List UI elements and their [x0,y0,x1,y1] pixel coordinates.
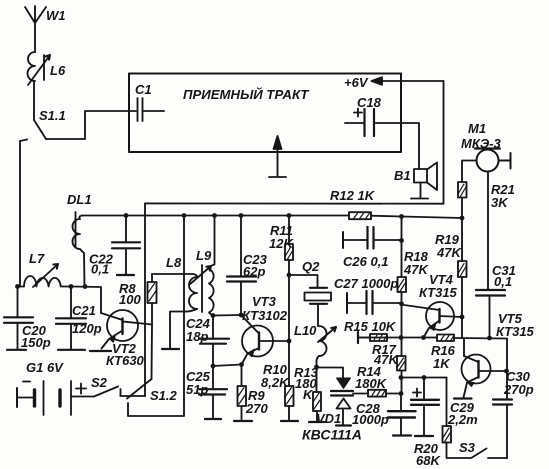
svg-text:62p: 62p [243,264,265,279]
capacitor C22 [112,216,140,275]
svg-text:L7: L7 [29,251,45,266]
svg-text:S3: S3 [459,440,476,455]
inductor DL1 [73,212,85,287]
node: input arrow into box bottom [269,136,286,177]
ground under VT2 emitter [90,350,111,352]
switch S2 [94,387,145,397]
svg-text:C21: C21 [72,303,96,318]
svg-text:3K: 3K [491,195,509,210]
svg-text:МКЭ-3: МКЭ-3 [461,136,501,151]
svg-text:C1: C1 [135,82,152,97]
ground under L8 [162,348,179,350]
transistor VT4 [401,302,463,338]
svg-text:КТ315: КТ315 [419,285,458,300]
svg-text:DL1: DL1 [67,192,92,207]
transistor VT5 [462,338,507,398]
resistor R11 [285,216,293,341]
battery G1 [17,381,94,415]
ground under R13 [309,421,324,423]
svg-text:68K: 68K [416,453,441,468]
svg-text:S1.2: S1.2 [150,388,178,403]
resistor R18 [398,277,407,292]
wire bus to M1 column [402,217,462,219]
svg-text:L9: L9 [196,248,212,263]
svg-text:C18: C18 [357,95,382,110]
wire R15/R16 emitter line [358,338,507,399]
svg-text:S2: S2 [91,375,108,390]
ground under C20 [7,349,26,351]
resistor R17 [397,356,406,371]
svg-text:B1: B1 [394,168,411,183]
ground under C22 [117,274,134,276]
svg-text:51p: 51p [186,382,208,397]
resistor R19 [458,218,467,317]
capacitor C27 with terminal bar [347,291,402,314]
svg-text:L10: L10 [294,323,317,338]
resistor R10 [285,341,294,421]
svg-text:0,1: 0,1 [494,274,512,289]
svg-text:47K: 47K [403,262,429,277]
svg-text:0,1: 0,1 [91,262,109,277]
svg-text:1000p: 1000p [352,412,389,427]
resistor R21 [458,182,467,218]
svg-text:+6V: +6V [344,75,369,90]
svg-text:M1: M1 [468,121,486,136]
svg-text:L6: L6 [50,63,66,78]
transistor VT2 [101,310,152,349]
resistor R20 [443,378,452,459]
resistor R8 [148,274,157,325]
svg-text:18p: 18p [186,329,208,344]
wire antenna to switch [33,81,35,120]
switch S3 [447,449,507,459]
svg-text:КТ3102: КТ3102 [242,308,288,323]
speaker B1 [414,163,437,199]
capacitor C29 electrolytic [411,378,439,436]
svg-text:2,2m: 2,2m [447,412,478,427]
capacitor C21 [56,287,86,350]
capacitor C31 [476,290,505,338]
capacitor C30 [493,400,512,459]
crystal Q2 [289,275,331,326]
wire L7 node to VT2 base [71,287,101,314]
ground under B1 [411,198,428,200]
ground under VD1 [336,424,351,426]
wire S2 rail up to +6V line [144,203,146,396]
capacitor C24 [200,316,229,367]
inductor L7 [20,264,71,287]
svg-text:ПРИЕМНЫЙ ТРАКТ: ПРИЕМНЫЙ ТРАКТ [183,86,309,102]
svg-text:150p: 150p [21,335,51,350]
wire colB main vertical [401,217,403,394]
ground / capacitor C29 plate under VT5 [454,397,472,399]
node +6V arrow [372,77,444,84]
switch S1.2 [127,216,184,416]
ground under R10 [281,420,298,422]
wire +6V rail right side down and across to S2 rail [145,81,444,204]
svg-text:1K: 1K [433,356,451,371]
svg-text:120p: 120p [72,321,102,336]
svg-text:VT3: VT3 [252,294,277,309]
inductor L6 [28,52,50,85]
svg-text:КТ315: КТ315 [496,324,535,339]
ground under C28 [393,434,411,436]
capacitor C20 [4,287,33,350]
capacitor C1 [138,98,165,121]
capacitor C28 [388,394,416,436]
capacitor C23 [227,216,256,315]
antenna W1 [25,6,46,52]
svg-text:КВС111А: КВС111А [302,427,362,443]
svg-text:R12 1K: R12 1K [330,188,376,203]
svg-text:S1.1: S1.1 [39,108,66,123]
wire C24 bottom to VT3 emitter node [213,365,242,367]
svg-text:270: 270 [245,401,268,416]
switch S1.1 [20,111,136,141]
capacitor C26 with terminal bar [343,227,402,249]
transistor VT3 [241,315,289,365]
wire L9 bottom to VT3 base node [213,314,241,317]
resistor R13 [313,367,321,422]
main bus wire with R12 [82,216,402,217]
wire colB to R20 top [401,377,447,379]
ground under C25 [205,418,221,420]
svg-text:12K: 12K [269,236,294,251]
svg-text:180K: 180K [355,376,388,391]
ground under C29 [415,435,433,437]
resistor R9 [238,365,247,421]
svg-text:КТ630: КТ630 [106,353,145,368]
svg-text:K: K [303,387,314,402]
resistor R15 with terminal bar [358,332,387,343]
resistor R14 [353,390,401,397]
wire S1.1 left throw down to L7 [19,141,21,287]
resistor R16 [437,335,454,342]
svg-text:Q2: Q2 [302,259,320,274]
svg-text:R15 10K: R15 10K [344,319,397,334]
resistor R12 [349,212,371,219]
inductor L10 [317,326,337,367]
svg-text:VD1: VD1 [316,411,341,426]
svg-text:L8: L8 [166,255,182,270]
varicap VD1 КВС111А [317,368,354,426]
svg-text:270p: 270p [503,382,534,397]
svg-text:W1: W1 [46,8,66,23]
ground under C21 [58,349,85,351]
svg-text:8,2K: 8,2K [261,375,290,390]
receiver box ПРИЕМНЫЙ ТРАКТ [129,74,401,153]
ground under R9 [234,420,252,422]
svg-text:100: 100 [119,292,141,307]
svg-text:C27 1000p: C27 1000p [334,276,398,291]
capacitor C25 [199,366,227,419]
transformer L8 L9 [152,216,215,348]
svg-text:47K: 47K [436,245,462,260]
svg-text:C26 0,1: C26 0,1 [343,254,389,269]
capacitor C18 [345,109,419,170]
svg-text:G1 6V: G1 6V [26,360,64,375]
microphone M1 [462,149,511,290]
